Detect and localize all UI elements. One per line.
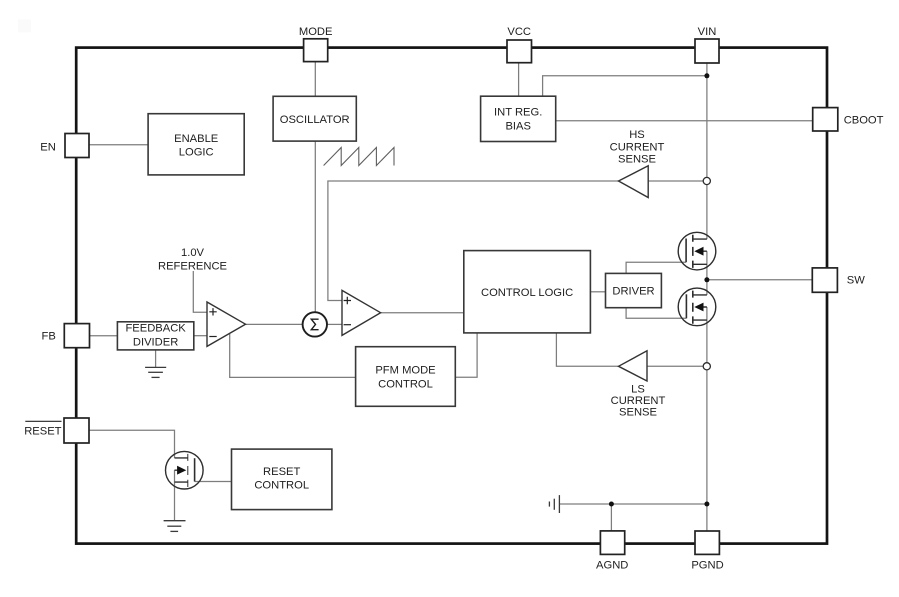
ground below reset fet: [164, 521, 186, 532]
wire error amp tap to pfm mode control: [230, 334, 356, 377]
svg-text:BIAS: BIAS: [505, 121, 531, 133]
wire reset fet source to ground: [174, 470, 176, 521]
wire reset fet gate to reset control: [195, 481, 232, 483]
ground sideways at agnd net: [549, 495, 559, 513]
wire error amp to summing node: [246, 323, 303, 325]
oscillator sawtooth: [324, 148, 394, 166]
svg-text:INT REG.: INT REG.: [494, 107, 542, 119]
wire agnd dot to AGND pin: [610, 504, 612, 531]
svg-text:SENSE: SENSE: [618, 154, 656, 166]
wire HS sense output to comparator plus: [328, 181, 619, 301]
svg-text:FB: FB: [42, 331, 56, 343]
pin FB: [64, 324, 89, 348]
block RESET CONTROL: [232, 449, 332, 510]
pin MODE: [304, 39, 328, 62]
svg-text:CURRENT: CURRENT: [610, 142, 665, 154]
wire HS sense input: [648, 180, 703, 182]
block FEEDBACK DIVIDER: [117, 322, 193, 350]
svg-text:RESET: RESET: [24, 425, 61, 437]
wire RESET pin to reset fet drain: [89, 430, 175, 458]
pin VCC: [507, 40, 532, 63]
svg-text:CONTROL: CONTROL: [254, 480, 309, 492]
svg-text:VIN: VIN: [698, 26, 717, 38]
svg-text:EN: EN: [40, 142, 56, 154]
pin SW: [812, 268, 837, 292]
svg-text:LS: LS: [631, 384, 645, 396]
block PFM MODE CONTROL: [356, 347, 456, 407]
svg-text:SENSE: SENSE: [619, 407, 657, 419]
svg-text:OSCILLATOR: OSCILLATOR: [280, 114, 350, 126]
block CONTROL LOGIC: [464, 251, 591, 333]
pin PGND: [695, 531, 719, 554]
op-amp LS current sense: [619, 351, 648, 381]
svg-text:RESET: RESET: [263, 466, 300, 478]
wire feedback divider to error amp minus: [194, 335, 207, 337]
svg-text:FEEDBACK: FEEDBACK: [125, 323, 186, 335]
watermark: [18, 19, 31, 32]
svg-text:CONTROL LOGIC: CONTROL LOGIC: [481, 287, 573, 299]
node VIN junction: [704, 73, 709, 78]
wire summing node to comparator minus: [327, 323, 342, 325]
wire LS sense output to control logic: [556, 333, 618, 366]
wire driver to high side gate: [626, 262, 686, 273]
wire VIN rail to high side drain: [706, 63, 708, 239]
block ENABLE LOGIC: [148, 114, 244, 175]
svg-text:CBOOT: CBOOT: [844, 114, 884, 126]
wire agnd net: [559, 503, 707, 505]
transistor high side fet: [678, 232, 716, 270]
wire driver to low side gate: [626, 308, 686, 319]
op-amp pwm comparator: [342, 290, 381, 335]
wire pfm mode control to control logic: [455, 333, 477, 377]
wire control logic to driver: [590, 291, 605, 293]
IC boundary: [76, 48, 827, 544]
svg-text:PGND: PGND: [691, 559, 723, 571]
svg-text:HS: HS: [629, 129, 645, 141]
wire EN to enable logic: [89, 144, 148, 146]
transistor reset open drain fet: [166, 451, 204, 489]
node summing junction: [303, 312, 327, 336]
transistor low side fet: [678, 288, 716, 326]
node SW junction: [704, 277, 709, 282]
pin RESET: [64, 418, 89, 443]
svg-text:PFM MODE: PFM MODE: [375, 365, 435, 377]
wire FB pin to feedback divider: [90, 335, 118, 337]
svg-text:SW: SW: [847, 275, 865, 287]
block OSCILLATOR: [273, 96, 356, 141]
wire LS sense input: [647, 365, 703, 367]
svg-text:DRIVER: DRIVER: [612, 286, 654, 298]
svg-text:CONTROL: CONTROL: [378, 378, 433, 390]
svg-text:LOGIC: LOGIC: [179, 146, 214, 158]
svg-text:CURRENT: CURRENT: [611, 395, 666, 407]
wire reference to error amp plus: [193, 271, 207, 312]
svg-text:VCC: VCC: [507, 26, 531, 38]
pin EN: [65, 134, 89, 158]
node PGND junction: [704, 502, 709, 507]
wire feedback divider ground stem: [155, 350, 157, 368]
svg-text:1.0V: 1.0V: [181, 247, 205, 259]
wire comparator to control logic: [381, 312, 464, 314]
node HS sense terminal: [703, 177, 710, 184]
node AGND junction: [609, 502, 614, 507]
ground below feedback divider: [145, 367, 166, 377]
wire SW node to SW pin: [707, 279, 812, 281]
op-amp error amplifier: [207, 302, 246, 346]
node LS sense terminal: [703, 363, 710, 370]
block INT REG BIAS: [481, 96, 556, 141]
block DRIVER: [606, 273, 662, 307]
svg-text:REFERENCE: REFERENCE: [158, 261, 227, 273]
pin AGND: [600, 531, 624, 555]
wire VCC to int reg bias: [518, 63, 520, 96]
svg-text:DIVIDER: DIVIDER: [133, 336, 178, 348]
wire VIN node to int reg bias top: [543, 76, 707, 96]
svg-text:ENABLE: ENABLE: [174, 133, 218, 145]
pin CBOOT: [813, 108, 838, 131]
op-amp HS current sense: [619, 166, 649, 198]
wire int reg bias to CBOOT: [556, 120, 813, 122]
wire low side source to PGND: [706, 307, 708, 531]
wire high side source to low side drain: [706, 251, 708, 295]
pin VIN: [695, 39, 719, 63]
wire oscillator to summing node: [314, 141, 316, 312]
svg-text:MODE: MODE: [299, 26, 333, 38]
svg-text:AGND: AGND: [596, 559, 628, 571]
wire MODE to oscillator: [314, 62, 316, 97]
